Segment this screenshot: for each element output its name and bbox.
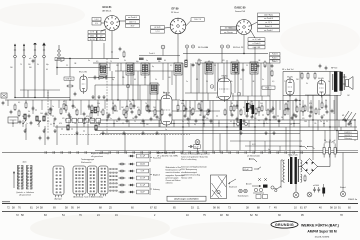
capacitor Cy117 [293, 113, 296, 117]
capacitor C22 [251, 115, 254, 119]
mains switch pictogram [249, 158, 257, 162]
wire V1 to bottom boxes [101, 29, 106, 31]
svg-text:25: 25 [106, 113, 108, 115]
label Rauschen [153, 158, 161, 160]
wire rail x8 [7, 100, 9, 106]
mains label box 3 [339, 137, 358, 140]
contact tick K26 [245, 151, 247, 154]
capacitor Cy119 [309, 114, 312, 118]
svg-text:25: 25 [240, 79, 242, 81]
wire stub 27 [250, 101, 252, 111]
wire trafo to rectifier [299, 166, 302, 168]
legend bracket 3 [150, 183, 152, 195]
resistor R22 [267, 109, 269, 117]
wire V1 left pin [101, 22, 105, 24]
wire stub 55 [248, 120, 250, 127]
svg-text:0,1: 0,1 [230, 121, 232, 123]
value label 44 [320, 121, 322, 123]
resistor R50 [301, 72, 303, 80]
svg-text:Schalter in Stellung AUS gez: Schalter in Stellung AUS gezeichnet [181, 153, 210, 156]
capacitor Cx12 [112, 106, 115, 110]
svg-text:5k: 5k [242, 124, 244, 126]
wire stub 36 [318, 100, 320, 115]
wire stub 6 [65, 100, 67, 113]
svg-text:am Punkt G: am Punkt G [128, 16, 138, 19]
resistor Ry116 [284, 109, 286, 117]
contact tick K28 [261, 151, 263, 154]
svg-text:100: 100 [304, 121, 307, 123]
legend resistor pictogram 1 [119, 163, 126, 165]
upper value label 34 [144, 77, 146, 79]
resistor Rx19 [177, 104, 179, 112]
label Punkt G [149, 52, 156, 55]
label Tastenaggregat [81, 158, 95, 161]
wire rail x337 [336, 95, 338, 153]
capacitor C81 [39, 136, 42, 140]
svg-text:70: 70 [284, 81, 286, 83]
wire T1 top lead [58, 45, 60, 50]
electrolytic capacitor C56 ratio [252, 103, 255, 118]
wire mains in top [281, 159, 283, 161]
svg-text:62 V ZF: 62 V ZF [154, 27, 160, 29]
svg-text:0,5: 0,5 [137, 107, 139, 109]
wire rail x150 [149, 63, 151, 111]
capacitor Cx32 [287, 107, 290, 111]
capacitor C19 [210, 119, 213, 123]
tube socket V2 EF89 (top view) [170, 18, 186, 34]
wire V3 left pin [229, 27, 237, 29]
voltage label box V2 left 2 [151, 30, 165, 33]
value label 5 [63, 101, 65, 103]
resistor Rx10 [97, 106, 99, 114]
capacitor C84 [192, 63, 195, 67]
resistor Ry104 [192, 108, 194, 116]
legend bracket 2 [150, 168, 152, 181]
wire selector feed [340, 127, 342, 131]
capacitor C90 [325, 66, 328, 70]
bus value label 4 [62, 118, 65, 120]
FM antenna terminal box [1, 93, 7, 98]
svg-text:Ratio 0 V: Ratio 0 V [265, 25, 273, 28]
value label 19 [216, 97, 219, 99]
bus value label 5 [74, 123, 77, 125]
wire rail x112 [111, 71, 113, 100]
value label 9 [112, 103, 114, 105]
contact tick K2 [53, 151, 55, 154]
wire rail x48 [47, 90, 49, 98]
svg-text:160/220 V: 160/220 V [344, 135, 352, 137]
resistor R70 [198, 59, 200, 67]
dashed tuner enclosure bottom [60, 134, 190, 136]
svg-text:10k: 10k [230, 81, 233, 83]
wire rail x197 [196, 63, 198, 101]
tube V7 EL95 envelope [286, 77, 294, 97]
legend resistor pictogram 2 [119, 170, 126, 172]
svg-text:WERKE FÜRTH (BAY.): WERKE FÜRTH (BAY.) [301, 222, 340, 227]
svg-text:2n: 2n [266, 123, 268, 125]
wire stub 63 [99, 63, 101, 71]
wire stub 30 [272, 101, 274, 115]
wire stub 49 [158, 120, 160, 127]
value label 37 [165, 129, 167, 131]
upper value label 29 [46, 64, 49, 66]
upper value label 39 [206, 81, 208, 83]
resistor R60 [304, 175, 306, 183]
contact grid S-E [110, 168, 117, 191]
coil L1 [24, 114, 26, 119]
capacitor Cx25 [236, 104, 239, 108]
svg-text:0,1: 0,1 [170, 65, 172, 67]
wire stub 43 [68, 120, 70, 127]
wire rail x145 [144, 63, 146, 85]
resistor R10 [123, 109, 125, 117]
legend resistor pictogram 3 [119, 177, 126, 179]
svg-text:50: 50 [324, 140, 326, 142]
svg-text:0,5: 0,5 [96, 61, 98, 63]
capacitor C52 [326, 110, 329, 114]
wire rail x133 [132, 63, 134, 100]
capacitor C87 [271, 64, 274, 68]
svg-text:Demod. NF: Demod. NF [235, 11, 246, 13]
bus value label 19 [242, 124, 244, 126]
wire FM mixer bus [20, 89, 60, 91]
wire stub 29 [265, 101, 267, 112]
voltage label box V1 right 3 [126, 24, 140, 27]
wire rail x125 [124, 134, 126, 153]
capacitor Cx22 [200, 108, 203, 112]
svg-text:am Punkt C: am Punkt C [264, 29, 274, 32]
svg-text:470: 470 [59, 123, 62, 125]
junction jy89 [75, 110, 76, 111]
junction node (133,100) [132, 99, 133, 100]
svg-text:Kondensatoren in pF: Kondensatoren in pF [166, 169, 182, 172]
label Rueckansicht [81, 161, 92, 164]
upper value label 48 [306, 83, 308, 85]
value label 35 [116, 121, 118, 123]
value label 17 [189, 107, 191, 109]
svg-text:40p: 40p [136, 61, 139, 63]
contact tick K15 [157, 151, 159, 154]
net label Punkt D [270, 60, 281, 63]
net label Punkt B [270, 53, 281, 56]
contact tick K17 [173, 151, 175, 154]
wire stub 80 [267, 63, 269, 96]
mains transformer Tr1 secondary winding [301, 160, 303, 182]
value label 4 [52, 106, 54, 108]
bus value label 13 [170, 123, 173, 125]
wire rail x276 [275, 101, 277, 121]
upper value label 49 [318, 83, 321, 85]
net label box Punkt C mid [262, 86, 275, 89]
capacitor C8 [84, 117, 87, 121]
voltage label box V1 left 1 [92, 18, 101, 21]
label V1 function [102, 10, 112, 13]
upper value label 41 [230, 81, 233, 83]
capacitor C85 [257, 64, 260, 68]
junction jy102 [176, 110, 177, 111]
svg-text:2x0,05: 2x0,05 [140, 164, 145, 166]
junction jy94 [116, 110, 117, 111]
capacitor Cx37 [325, 104, 328, 108]
wire rail x318 [317, 120, 319, 131]
junction node (183,100.5) [182, 100, 183, 101]
wire antenna lead 4 [43, 62, 45, 98]
measuring jack FE1 [185, 45, 188, 48]
svg-text:2n: 2n [272, 107, 274, 109]
svg-text:0,5: 0,5 [272, 81, 274, 83]
bus value label 9 [122, 123, 124, 125]
capacitor C64 [317, 187, 320, 193]
heater bus lower [245, 141, 302, 153]
ground G9 [239, 131, 242, 135]
wire lower secondary bus [95, 149, 358, 151]
label Skalenl [340, 187, 347, 189]
svg-text:100 / 2 V: 100 / 2 V [194, 19, 202, 21]
svg-text:470: 470 [62, 118, 65, 120]
junction jx42 [53, 123, 54, 124]
IF transformer Fi2 [126, 63, 134, 75]
value label 42 [281, 117, 283, 119]
upper value label 18 [208, 61, 210, 63]
coil L2 [36, 116, 38, 121]
svg-text:50: 50 [299, 104, 301, 106]
svg-text:ml 5000: ml 5000 [313, 185, 319, 187]
tube socket V3 EABC80 (top view) [236, 19, 252, 34]
resistor Rx34 [302, 106, 304, 114]
voltage label box V1 left 2 [92, 22, 101, 25]
svg-text:2n: 2n [26, 123, 28, 125]
voltage label box V3 bottom 1 [248, 38, 265, 41]
wire stub 40 [22, 120, 24, 127]
contact tick K33 [301, 151, 303, 154]
junction jy121 [323, 114, 324, 115]
wire bus under jacks [183, 53, 268, 55]
svg-text:AM/ZF Sperrkreis: AM/ZF Sperrkreis [157, 152, 174, 155]
wire stub 39 [12, 120, 14, 127]
contact tick K16 [165, 151, 167, 154]
wire heater bus [230, 140, 302, 142]
wire main bus 6 [100, 133, 300, 135]
legend value box 3 [137, 169, 149, 173]
svg-text:5n: 5n [88, 60, 90, 62]
junction jy118 [300, 110, 301, 111]
upper value label 42 [240, 79, 242, 81]
wire rail x118 [117, 63, 119, 100]
ground G4 [75, 131, 78, 135]
capacitor C63 [313, 187, 316, 193]
junction jy113 [262, 114, 263, 115]
note text block AM ZF [157, 152, 178, 158]
value label 32 [47, 121, 49, 123]
svg-text:110/125 V: 110/125 V [344, 132, 352, 134]
wire stub 58 [293, 120, 295, 127]
contact tick K18 [181, 151, 183, 154]
wire top AM bus [57, 58, 119, 60]
resistor Ry108 [224, 109, 226, 117]
svg-text:5k: 5k [281, 117, 283, 119]
voltage label box V1 bottom R1 [97, 31, 105, 34]
value label 48 [83, 123, 86, 125]
svg-text:60: 60 [231, 103, 233, 105]
upper value label 10 [146, 60, 148, 62]
junction jx62 [350, 123, 351, 124]
wire stub 26 [244, 101, 246, 116]
wire main bus 2 [65, 119, 355, 121]
capacitor C83 left edge [2, 101, 5, 105]
svg-text:oben: oben [23, 162, 27, 164]
resistor R3 [14, 104, 16, 112]
resistor R9 [114, 105, 116, 113]
wire stub 52 [203, 120, 205, 127]
svg-text:0,5: 0,5 [122, 123, 124, 125]
junction node (107,120) [106, 119, 107, 120]
svg-text:M1: M1 [208, 61, 210, 63]
svg-text:alle gezeichnet: alle gezeichnet [91, 155, 103, 158]
title AM FM Super 98 M [307, 230, 337, 234]
upper value label 20 [222, 60, 225, 62]
bus value label 11 [146, 124, 149, 126]
wire rail jack FE1 down [186, 54, 188, 64]
svg-text:AM/FM Super 98 M: AM/FM Super 98 M [307, 230, 337, 234]
svg-text:10k: 10k [74, 123, 77, 125]
voltage label box V1 bottom R3 [97, 38, 105, 41]
wire FM input bus [15, 97, 70, 99]
upper value label 40 [218, 79, 221, 81]
svg-text:100: 100 [40, 113, 43, 115]
resistor R20 [248, 103, 250, 111]
capacitor C14 [150, 117, 153, 121]
svg-text:AM Misch.: AM Misch. [102, 10, 112, 13]
wire stub 42 [53, 120, 55, 127]
bus value label 25 [314, 123, 317, 125]
wire stub 37 [325, 100, 327, 110]
svg-text:50: 50 [50, 124, 52, 126]
junction node (15,97.5) [14, 97, 15, 98]
junction node (118,100) [117, 99, 118, 100]
upper value label 28 [37, 64, 39, 66]
svg-text:60: 60 [134, 79, 136, 81]
label V3 type [235, 6, 247, 10]
component block on AM bus 1 [139, 58, 144, 60]
resistor R18 [233, 105, 235, 113]
label Abgleich [153, 174, 160, 177]
wire rail x233 [232, 93, 234, 101]
capacitor C9 [107, 115, 110, 119]
pilot lamp La3 Skalenlampe [340, 191, 345, 196]
svg-text:50: 50 [214, 65, 216, 67]
svg-text:FB Prüf. ZF: FB Prüf. ZF [233, 47, 244, 49]
value label 47 [59, 123, 62, 125]
svg-text:50: 50 [329, 140, 331, 142]
capacitor C10 [118, 117, 121, 121]
wire rail x160 [159, 100, 161, 127]
wire stub 48 [143, 120, 145, 127]
svg-text:ca. 1,2 V: ca. 1,2 V [265, 22, 273, 24]
bus value label 3 [50, 124, 52, 126]
junction node (70,58.5) [69, 58, 70, 59]
wire stub 66 [130, 71, 132, 85]
wire stub 72 [198, 63, 200, 93]
junction jx52 [203, 123, 204, 124]
resistor R5 [63, 103, 65, 111]
junction jy105 [199, 114, 200, 115]
output transformer lower leads [335, 95, 337, 130]
contact tick K20 [197, 151, 199, 154]
junction jx46 [113, 123, 114, 124]
wire rail x70 [69, 59, 71, 101]
upper value label 38 [196, 79, 198, 81]
value label 20 [231, 103, 233, 105]
upper value label 11 [152, 66, 154, 68]
svg-text:1n: 1n [328, 81, 330, 83]
svg-text:ca. 0,9 mA: ca. 0,9 mA [252, 38, 261, 41]
legend resistor pictogram 5 [119, 191, 126, 193]
label EM84 [222, 76, 229, 78]
contact tick K23 [221, 151, 223, 154]
bus value label 23 [290, 124, 292, 126]
capacitor C88 [119, 47, 122, 51]
svg-text:Toleranz ±15%: Toleranz ±15% [181, 176, 193, 179]
ground G7 [141, 131, 144, 135]
svg-text:0,45 V NF: 0,45 V NF [253, 47, 261, 49]
capacitor Cy85 [45, 112, 48, 116]
svg-text:30k: 30k [210, 123, 213, 125]
value label 21 [243, 107, 245, 109]
svg-text:EF 89: EF 89 [172, 7, 179, 11]
upper value label 14 [170, 65, 172, 67]
svg-text:EM 84: EM 84 [222, 76, 229, 78]
ruler line stub left [2, 201, 10, 203]
resistor R54 [321, 102, 323, 110]
junction node (355,120) [354, 119, 355, 120]
svg-text:100 V / 2: 100 V / 2 [129, 21, 136, 23]
resistor R73 [271, 70, 273, 78]
component block on AM bus 2 [157, 58, 162, 60]
svg-text:200: 200 [296, 79, 299, 81]
label V3 function [235, 11, 246, 13]
value label 28 [318, 109, 321, 111]
bus value label 7 [98, 124, 101, 126]
upper value label 13 [164, 60, 166, 62]
wire stub 1 [25, 100, 27, 108]
title drawing code [315, 236, 330, 238]
junction node (35,97.5) [34, 97, 35, 98]
svg-text:5n: 5n [264, 65, 266, 67]
value label 29 [325, 100, 327, 102]
capacitor C6 [54, 117, 57, 121]
potentiometer P1 volume [205, 109, 209, 117]
capacitor C3 [105, 75, 108, 79]
value label 24 [272, 107, 274, 109]
wire rail x293 [292, 101, 294, 121]
wire main bus 3 [90, 123, 300, 125]
value label 11 [129, 101, 131, 103]
electrolytic capacitor C62 50uF [334, 144, 336, 158]
solder strip column 2 [27, 166, 33, 189]
wire stub 76 [234, 63, 236, 93]
svg-text:470: 470 [86, 116, 89, 118]
svg-text:a. Punkt D: a. Punkt D [253, 42, 262, 45]
junction jx50 [173, 123, 174, 124]
legend diode pictogram 1 [129, 155, 135, 157]
svg-text:0,1: 0,1 [243, 107, 245, 109]
svg-text:60: 60 [236, 121, 238, 123]
wire antenna lead 2 [23, 62, 25, 98]
wire IF bus left [93, 62, 183, 64]
resistor R19 [240, 109, 242, 117]
mains label box 2 [339, 134, 358, 137]
ruler number row upper [7, 207, 351, 210]
